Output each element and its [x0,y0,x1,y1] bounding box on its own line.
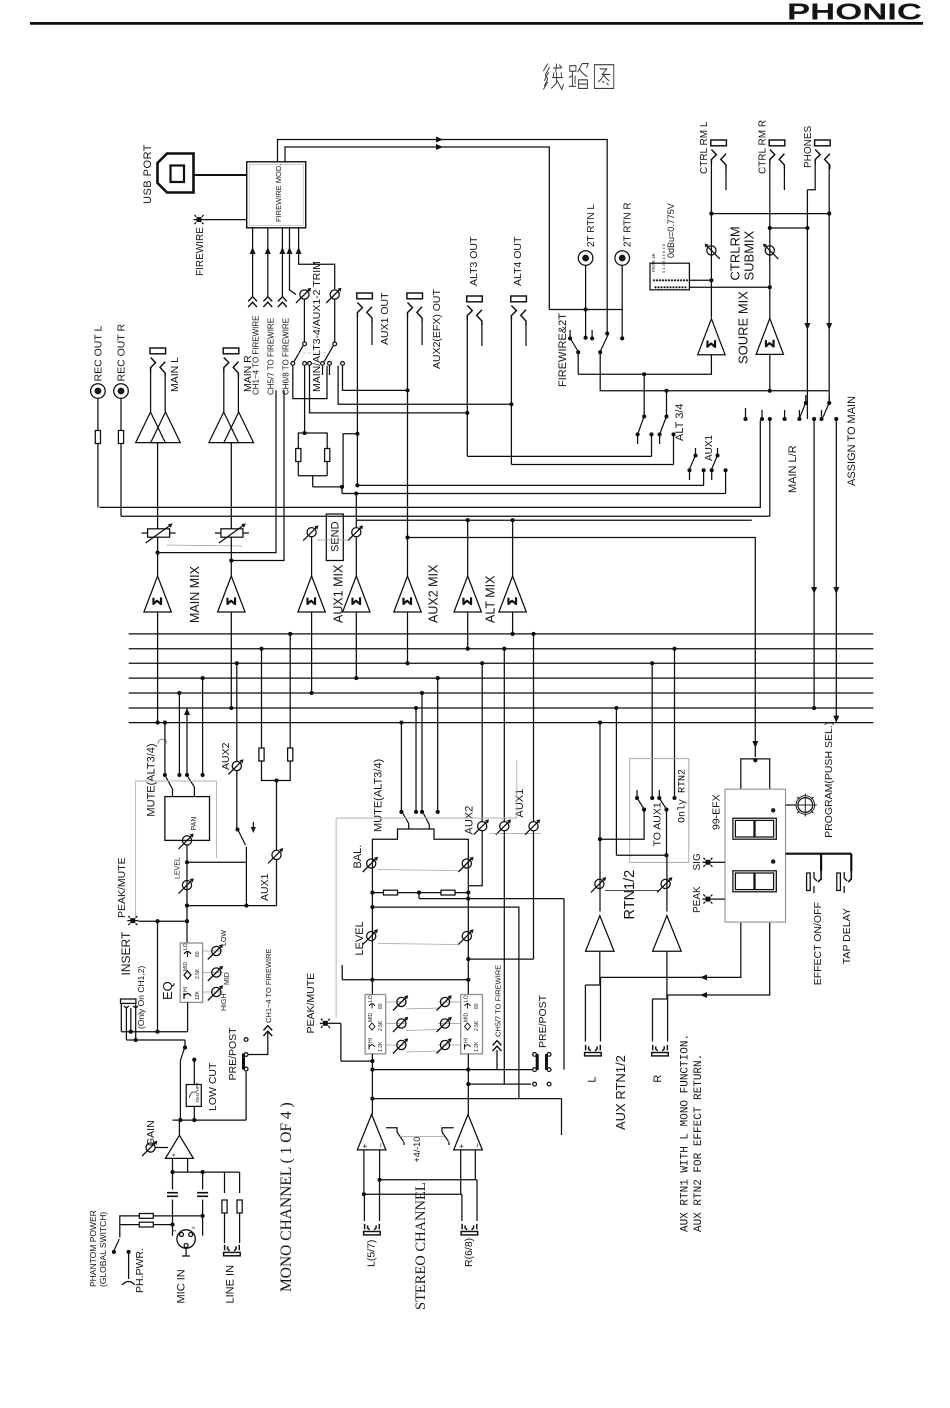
INSERT [119,931,188,1042]
mix bus line 2 [129,648,874,650]
fader MAIN MIX L [142,524,176,544]
pot LEVEL mono [179,878,194,893]
svg-text:TO AUX1: TO AUX1 [652,802,664,846]
wire to ALT3 net [310,366,468,413]
mix bus line 3 [129,662,874,664]
pot CTRLRM SUBMIX L [705,244,720,259]
wire assign to main R [835,419,837,723]
wire AUX1 send stereo [533,634,535,822]
stereo EQ boxes [365,995,482,1054]
mix bus line 5 [129,692,874,694]
wire fader R out [231,390,284,560]
LED PEAK/MUTE mono [127,916,138,925]
jack AUX RTN R [652,1045,669,1056]
svg-text:AUX1 OUT: AUX1 OUT [379,292,391,345]
jack EFFECT ON/OFF [807,873,811,891]
svg-text:LEVEL: LEVEL [175,857,182,879]
SEND label box [326,514,343,561]
7-segment display 1 [733,818,776,839]
svg-text:CTRL RM L: CTRL RM L [699,121,710,174]
svg-text:80: 80 [474,1003,480,1009]
svg-text:ALT MIX: ALT MIX [484,575,498,623]
jack ALT4 OUT [511,236,527,464]
wires sum amps into mix bus with junctions [157,612,159,723]
resistor R5 [222,1200,227,1213]
wire ctrl-room net L [711,213,829,215]
svg-text:2.5K: 2.5K [378,1020,384,1031]
svg-text:TAP DELAY: TAP DELAY [841,908,853,964]
wire mono channel chain [186,845,188,943]
wires aux rtn jacks [584,985,586,1042]
pot BAL R [458,857,473,872]
op-amp AUX RTN L [586,916,615,952]
jack PHONES [803,125,832,419]
resistor sub-network under trim [303,431,307,435]
jack L(5/7) [364,1224,381,1235]
svg-text:PROGRAM(PUSH SEL.): PROGRAM(PUSH SEL.) [823,722,835,838]
EQ block mono (HI 12K / MID 2.5K / LO 80) [180,943,202,1002]
jack MAIN L + balanced driver amps [136,348,181,529]
wires aux return nets from bus [599,723,601,912]
pot AUX2 stereo L [474,819,489,834]
svg-text:80: 80 [195,951,201,957]
op-amp sum AUX1 MIX a [298,576,325,612]
svg-text:0dBu=0.775V: 0dBu=0.775V [666,203,676,258]
svg-text:(GLOBAL SWITCH): (GLOBAL SWITCH) [98,1212,108,1287]
switch MAIN L/R assign [805,395,807,402]
pot BAL L [363,857,378,872]
RCA jack REC OUT L [91,326,106,508]
svg-text:BAL.: BAL. [352,845,364,869]
switch +4/-10 level select [386,1128,397,1132]
svg-text:ASSIGN TO MAIN: ASSIGN TO MAIN [846,396,858,486]
svg-text:LINE IN: LINE IN [225,1265,237,1304]
svg-text:FIREWIRE: FIREWIRE [195,227,206,276]
chevron CH1~4 tap [263,1026,272,1036]
wire AUX1 jack to assign matrix [357,484,703,486]
jack TAP DELAY [837,873,841,891]
op-amp stereo line R [454,1114,483,1150]
pot PAN [179,834,194,849]
op-amp mic preamp [165,1135,193,1158]
DB25 connector 0dBu=0.775V [650,203,772,290]
knob PROGRAM(PUSH SEL.) [786,804,795,806]
five wires below box with up arrows [250,228,335,296]
svg-text:2.5K: 2.5K [195,968,201,979]
jack AUX RTN L [585,1045,602,1056]
svg-text:AUX RTN1/2: AUX RTN1/2 [613,1055,628,1130]
svg-text:MAIN R: MAIN R [242,355,254,392]
svg-text:12K: 12K [195,990,201,1000]
pot RTN1 level [591,877,606,892]
svg-text:PEAK: PEAK [692,886,703,913]
pot RTN2 level [657,877,672,892]
wires stereo inputs to jacks [363,1150,365,1194]
trim selector contacts [303,342,307,346]
pot AUX2 mono [228,759,243,774]
wire ctrl-room net R [770,227,808,229]
wires stereo channel to bus junctions [400,723,402,811]
op-amp AUX RTN R [653,916,682,952]
svg-text:PHONIC: PHONIC [787,0,922,25]
svg-text:−: − [377,1143,386,1148]
FIREWIRE LED [194,215,205,224]
线 [543,64,563,90]
wire selector to attenuator network [304,366,306,433]
pot AUX1 mono [268,848,283,863]
svg-text:L(5/7): L(5/7) [366,1240,378,1267]
svg-text:SEND: SEND [330,521,342,552]
svg-text:AUX1 MIX: AUX1 MIX [332,564,346,623]
switch PRE/POST mono contacts [244,1038,248,1042]
jack R(6/8) [461,1224,478,1235]
svg-text:INSERT: INSERT [119,931,133,975]
svg-text:SUBMIX: SUBMIX [742,230,757,280]
svg-text:LO: LO [183,943,189,950]
switch MUTE(ALT3/4) mono [166,777,173,789]
input network [167,1172,242,1243]
jack CTRL RM R + submix chain [756,120,785,393]
gang dashed link [298,352,329,354]
wire mute to peak/mute LED (gray) [136,781,217,917]
RCA jack 2T RTN L [578,204,597,336]
svg-text:+: + [171,1153,178,1157]
AUX1 group [687,434,727,493]
svg-text:MIC IN: MIC IN [176,1269,188,1303]
svg-text:USB PORT: USB PORT [142,144,154,204]
pot GAIN [142,1141,157,1156]
svg-text:CH5/7 TO FIREWIRE: CH5/7 TO FIREWIRE [494,965,503,1037]
FIREWIRE MOD. module box [247,162,306,228]
chevron CH5/7 tap [493,1041,502,1051]
resistor phantom R7 [139,1214,153,1219]
svg-text:PRE/POST: PRE/POST [227,1027,239,1081]
wire AUX2 send mono [236,663,238,761]
RCA jack 2T RTN R [615,202,634,337]
wire AUX1-out tap bracket [343,434,357,487]
op-amp stereo line L [357,1114,386,1150]
capacitor C2 [197,1193,208,1197]
svg-text:CTRL RM R: CTRL RM R [758,120,769,174]
trim pot VR2 [326,288,341,303]
switch PRE/POST stereo [533,1053,537,1057]
99-EFX processor box [725,789,786,922]
BAL block stereo [372,829,468,893]
svg-text:MAIN L/R: MAIN L/R [787,445,799,493]
XLR connector MIC IN pins 1/2/3 [177,1230,195,1248]
svg-text:MID: MID [183,961,189,971]
svg-text:MUTE(ALT3/4): MUTE(ALT3/4) [146,743,158,816]
PAN block mono [165,797,210,841]
svg-text:PH.PWR.: PH.PWR. [134,1248,146,1293]
svg-text:AUX1: AUX1 [704,434,715,461]
EQ box [160,930,231,1011]
wire LED to module [205,219,247,221]
TO AUX1 select box (Only RTN2) [630,759,689,863]
svg-text:R(6/8): R(6/8) [463,1238,475,1267]
input coupling network [172,1172,174,1189]
RCA jack REC OUT R [114,324,129,517]
pots EQ stereo col1 [393,995,408,1010]
switch PH.PWR. [114,1239,119,1251]
fader MAIN MIX R [215,524,249,544]
svg-text:MID: MID [224,972,231,985]
attenuator resistor pair network [298,433,327,476]
svg-text:EFFECT ON/OFF: EFFECT ON/OFF [812,902,824,985]
op-amp sum ALT MIX 3 [454,576,481,612]
svg-text:MONO CHANNEL ( 1 OF 4 ): MONO CHANNEL ( 1 OF 4 ) [278,1102,295,1292]
svg-text:+4/-10: +4/-10 [412,1137,422,1163]
wire AUX1 send bus [342,493,726,495]
switch AUX2 pre/post mono [235,827,239,831]
svg-text:L: L [587,1076,599,1082]
level row [371,893,373,995]
svg-text:75Hz HPF: 75Hz HPF [195,1082,200,1103]
svg-text:MID: MID [368,1012,374,1022]
lines below EQ [371,1054,373,1115]
svg-text:HI: HI [464,1038,470,1043]
wire switch pole R to source mix [600,352,829,391]
svg-text:MUTE(ALT3/4): MUTE(ALT3/4) [373,759,385,832]
pot AUX1 send level L [303,525,318,540]
svg-text:MAIN MIX: MAIN MIX [188,565,202,623]
svg-text:AUX2 MIX: AUX2 MIX [427,564,441,623]
svg-text:PEAK/MUTE: PEAK/MUTE [116,857,128,918]
svg-text:CTRLRM: CTRLRM [728,226,743,280]
LED PEAK [702,895,713,904]
title 线路图 (outline-drawn) [543,64,613,90]
pot EQ MID [208,966,223,981]
svg-text:SIG: SIG [692,853,703,870]
svg-text:ALT4 OUT: ALT4 OUT [512,236,524,286]
svg-text:Only RTN2: Only RTN2 [677,769,689,823]
resistor R6 [237,1200,242,1213]
svg-text:FIREWIRE MOD.: FIREWIRE MOD. [274,164,283,222]
图 [594,65,613,89]
LOW CUT [173,1062,247,1122]
svg-text:REC OUT R: REC OUT R [116,324,128,382]
pot EQ LOW [208,944,223,959]
svg-text:AUX2(EFX) OUT: AUX2(EFX) OUT [431,288,443,369]
svg-text:AUX2: AUX2 [464,806,476,835]
op-amp sum SOURE MIX L [698,319,725,355]
svg-text:REC OUT L: REC OUT L [93,326,105,382]
svg-text:CH1~4 TO FIREWIRE: CH1~4 TO FIREWIRE [264,948,273,1023]
resistor R10 [441,890,455,895]
FIREWIRE&2T switches [557,313,829,393]
wire firewire out 1 to 2T switch net [278,140,608,333]
LED SIG [702,858,713,867]
op-amp sum AUX2 MIX [394,576,421,612]
switch PRE/POST mono pole [183,1045,187,1049]
switch AUX1 assign [695,448,697,454]
svg-text:PHANTOM POWER: PHANTOM POWER [88,1210,98,1287]
jack ALT3 OUT [467,236,483,456]
resistor phantom R8 [139,1222,153,1227]
svg-text:2.5K: 2.5K [474,1020,480,1031]
svg-text:LEVEL: LEVEL [354,921,366,955]
ALT 3/4 group [467,374,686,464]
svg-text:2: 2 [191,1226,196,1229]
pot AUX1 stereo [525,819,540,834]
EQ block stereo R [461,995,483,1054]
svg-text:ALT3 OUT: ALT3 OUT [468,236,480,286]
pot AUX2 stereo R [496,819,511,834]
svg-text:GAIN: GAIN [145,1120,157,1146]
svg-text:PEAK/MUTE: PEAK/MUTE [305,973,317,1034]
wire 2T return bus [549,309,622,311]
svg-text:PHONES: PHONES [803,125,814,168]
op-amp sum MAIN MIX R [218,576,245,612]
GAIN + input amp [142,1120,240,1174]
arrowheads firewire outputs [436,137,443,143]
wire REC OUT L feed [100,421,761,508]
wires module to CH1-4/CH5-7/CH6-8 sends [252,228,254,296]
wires mono channel to bus junctions [164,723,166,774]
wire AUX2 send to 99-EFX [408,538,756,758]
svg-text:−: − [473,1143,482,1148]
pot LEVEL stereo R [458,929,473,944]
capacitor C1 [167,1193,178,1197]
jack AUX1 OUT [357,292,391,485]
svg-text:LOW CUT: LOW CUT [207,1062,219,1111]
wire fader L out [158,390,276,552]
MAIN L/R group [743,395,858,723]
jack MAIN R + balanced driver amps [209,348,254,529]
switch TO AUX1 [636,790,638,797]
resistor R4 [288,748,293,761]
svg-text:R: R [652,1075,664,1083]
wire footswitch feed (bold) [786,854,852,871]
svg-text:2T RTN R: 2T RTN R [623,202,634,247]
wire to CH1~4 firewire tap [249,1033,268,1055]
LOW CUT 75Hz HPF block [186,1085,201,1107]
phantom power [88,1210,203,1293]
wire EFX out R with arrow [667,922,770,995]
svg-text:LOW: LOW [221,930,228,946]
EQ block stereo L [365,995,386,1054]
99-EFX input stub [741,759,770,789]
trim pot VR1 [296,288,311,303]
svg-text:AUX1: AUX1 [259,873,271,901]
jack CTRL RM L + submix chain [578,121,726,376]
99-EFX [692,722,853,986]
svg-text:HI: HI [183,987,189,992]
wire EFX out L with arrow [600,922,741,977]
chevron CH6/8 [278,297,287,307]
PRE/POST mono [180,948,273,1120]
XLR MIC IN [172,1226,196,1304]
wire switch pole L to source mix [577,352,579,374]
svg-text:AUX RTN2 FOR EFFECT RETURN.: AUX RTN2 FOR EFFECT RETURN. [693,1054,705,1232]
wire ALT mix feed [356,519,752,521]
resistor row [372,892,468,894]
USB PORT connector icon [158,154,194,193]
svg-text:+: + [361,1144,370,1149]
svg-text:HIGH: HIGH [221,994,228,1012]
svg-text:PEAK 4K: PEAK 4K [651,253,656,272]
resistor R2 [325,449,330,462]
路 [569,64,588,89]
amps with +4/-10 [357,1114,482,1162]
svg-text:(Only On CH1,2): (Only On CH1,2) [136,966,146,1029]
svg-text:EQ: EQ [160,981,175,1000]
fader gang link [167,545,242,546]
svg-text:CH6/8 TO FIREWIRE: CH6/8 TO FIREWIRE [282,318,291,395]
wire hop [158,739,167,743]
LINE IN jack [224,1245,241,1304]
svg-text:AUX RTN1 WITH L MONO FUNCTION.: AUX RTN1 WITH L MONO FUNCTION. [680,1034,692,1232]
op-amp sum SOURE MIX R [756,318,783,354]
pots EQ stereo col2 [437,995,452,1010]
wire AUX2 send stereo L [481,663,483,821]
svg-text:PRE/POST: PRE/POST [537,994,549,1048]
mix bus line 6 [129,707,874,709]
svg-text:SOURE MIX: SOURE MIX [736,291,751,364]
wire trim selector bracket [293,366,327,399]
trim selector blades [294,346,303,362]
pot EQ HIGH [208,985,223,1000]
pot LEVEL stereo L [363,929,378,944]
mix bus line 1 [129,633,874,635]
svg-text:1.2K: 1.2K [474,1041,480,1052]
mix bus line 7 [129,722,874,724]
svg-text:99-EFX: 99-EFX [711,794,723,830]
wire REC OUT R feed [121,515,770,517]
7-segment display 2 [733,871,776,892]
svg-text:PAN: PAN [191,817,198,831]
svg-text:LO: LO [368,995,374,1002]
svg-text:FIREWIRE&2T: FIREWIRE&2T [557,313,569,387]
chevron CH1~4 [248,297,257,307]
svg-text:+: + [457,1144,466,1149]
resistor R1 [296,449,301,462]
svg-text:STEREO CHANNEL: STEREO CHANNEL [413,1182,429,1310]
op-amp sum MAIN MIX L [144,576,171,612]
svg-text:CH5/7 TO FIREWIRE: CH5/7 TO FIREWIRE [267,318,276,395]
svg-text:AUX2: AUX2 [220,742,232,770]
mix bus line 4 [129,677,874,679]
jack AUX2(EFX) OUT [407,288,443,537]
svg-text:MAIN L: MAIN L [169,357,181,392]
switch FIREWIRE&2T source select [569,330,571,337]
svg-text:MID: MID [464,1012,470,1022]
svg-text:MAIN/ALT3-4/AUX1-2 TRIM: MAIN/ALT3-4/AUX1-2 TRIM [311,261,323,392]
resistor R3 [259,748,264,761]
wire assign to main L [813,419,815,708]
svg-text:HI: HI [368,1038,374,1043]
svg-text:LO: LO [464,995,470,1002]
svg-text:1.2K: 1.2K [378,1041,384,1052]
LED PEAK/MUTE stereo [320,1019,331,1028]
wire USB to firewire module [194,174,247,176]
wires trim pots to selector [303,299,305,341]
pot AUX1 send level R [348,525,363,540]
wire to ALT4 net [338,366,511,405]
jack LINE IN [224,1245,241,1256]
wire firewire out 2 to 2T switch net [285,147,549,310]
wires AUX1 send resistors mono [261,649,263,748]
svg-text:2T RTN L: 2T RTN L [586,204,597,247]
header rule [30,22,923,25]
svg-text:RTN1/2: RTN1/2 [622,870,638,920]
svg-text:AUX1: AUX1 [514,789,526,818]
pot CTRLRM SUBMIX R [763,244,778,259]
switch ALT 3/4 assign [643,374,645,415]
svg-text:ALT 3/4: ALT 3/4 [674,403,686,441]
chevron CH5/7 [263,297,272,307]
switch MUTE stereo [403,814,409,824]
